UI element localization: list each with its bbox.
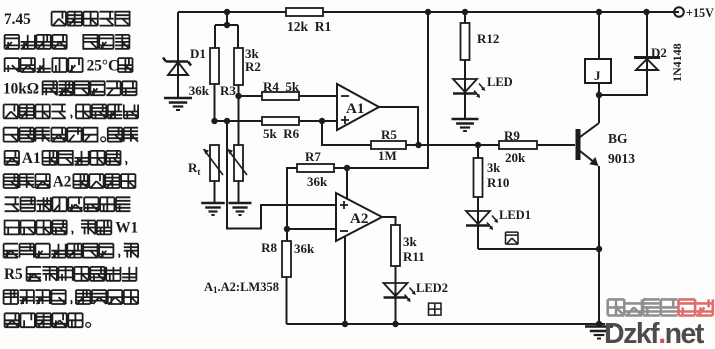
svg-text:LED: LED xyxy=(487,75,513,89)
wire node B to R4 xyxy=(239,95,263,97)
wire R9 to transistor base xyxy=(537,144,575,146)
wire rail to R12 xyxy=(464,12,466,23)
junction node A to A2 + wire xyxy=(224,118,230,124)
wire W1 to ground xyxy=(238,181,240,203)
resistor R2 3k xyxy=(234,48,243,85)
wire rail to R3/R2 tee xyxy=(226,12,228,25)
ground (under Rt) xyxy=(201,203,225,215)
wire LED1 to emitter line xyxy=(478,248,599,250)
wire R8 to ground rail xyxy=(286,277,288,324)
svg-text:10kΩ: 10kΩ xyxy=(3,81,39,98)
ground (under W1) xyxy=(229,203,252,215)
wire R11 through LED2 to rail xyxy=(395,266,397,324)
svg-text:A2: A2 xyxy=(350,211,368,227)
junction rail to R7 feed xyxy=(425,9,431,15)
svg-text:5k R6: 5k R6 xyxy=(263,126,300,141)
wire A2 V- power tap to ground rail xyxy=(344,237,346,325)
+15V supply terminal xyxy=(674,7,684,17)
wire R4 to A1 inverting input xyxy=(299,95,337,97)
svg-text:A2: A2 xyxy=(53,173,72,190)
svg-text:36k: 36k xyxy=(307,174,328,189)
junction A2 V- on ground rail xyxy=(342,321,348,327)
resistor R1 12k (in top rail) xyxy=(286,8,323,16)
potentiometer W1 xyxy=(227,145,247,181)
transistor BG 9013 xyxy=(576,123,600,166)
svg-text:LED1: LED1 xyxy=(499,208,531,222)
resistor R3 36k xyxy=(210,48,219,84)
resistor R6 5k xyxy=(262,117,299,125)
wire +15V down to R7 line (crosses output wire) xyxy=(347,12,428,168)
ground (under D1) xyxy=(164,98,192,110)
label red (hong) xyxy=(506,232,519,244)
wire R12 through LED to ground xyxy=(464,60,466,119)
junction on rail (R3/R2 branch) xyxy=(224,9,230,15)
junction A1 output / R5 xyxy=(415,142,421,148)
zener diode D1 xyxy=(163,58,191,76)
junction node A at R3/Rt xyxy=(211,118,217,124)
wire output node to R10 xyxy=(477,145,479,158)
op-amp A1 xyxy=(337,84,379,130)
junction R7 feed / A2 V+ tap xyxy=(344,165,350,171)
svg-text:W1: W1 xyxy=(115,220,138,237)
wire node A to A2 + input xyxy=(227,121,336,229)
resistor R9 20k xyxy=(499,141,537,149)
wire node B down to W1 (crosses node-A line) xyxy=(238,96,240,145)
wire R3 bottom to node A xyxy=(214,84,216,121)
svg-text:R12: R12 xyxy=(477,31,499,46)
wire +15V rail xyxy=(323,11,679,13)
wire Vref through D1 to ground xyxy=(177,12,179,98)
junction LED2 on ground rail xyxy=(392,321,398,327)
svg-text:20k: 20k xyxy=(505,150,526,165)
LED (power indicator) xyxy=(453,79,485,98)
wire ground rail xyxy=(287,323,606,325)
wire A2 output to R11 xyxy=(382,217,396,225)
svg-text:D2: D2 xyxy=(651,45,667,60)
svg-text:R8: R8 xyxy=(261,240,277,255)
resistor R8 36k xyxy=(282,241,291,277)
resistor R4 5k xyxy=(262,92,299,100)
junction output node / R10 xyxy=(475,142,481,148)
svg-text:R5: R5 xyxy=(381,127,397,142)
svg-text:Dzkf.net: Dzkf.net xyxy=(604,318,705,349)
svg-text:R5: R5 xyxy=(4,266,23,283)
wire R6 to A1 non-inverting input xyxy=(299,120,337,122)
label yellow (huang) xyxy=(429,303,442,315)
svg-text:R10: R10 xyxy=(487,175,509,190)
wire R5 to output node xyxy=(406,144,419,146)
wire rail to relay coil xyxy=(598,12,600,59)
wire node to R8 xyxy=(286,229,288,241)
svg-text:9013: 9013 xyxy=(608,151,635,166)
svg-text:R4 5k: R4 5k xyxy=(263,79,300,94)
wire A2 V+ power tap xyxy=(346,168,348,198)
svg-text:36k: 36k xyxy=(294,241,315,256)
wire R7 left end down to A2 - node xyxy=(287,168,297,229)
wire node A horizontal xyxy=(215,120,263,122)
wire relay coil bottom xyxy=(598,83,600,95)
ground (under LED) xyxy=(452,119,479,131)
junction A2 - input / R7 / R8 xyxy=(284,226,290,232)
svg-text:R11: R11 xyxy=(403,249,425,264)
wire A1 output down to node xyxy=(379,107,418,145)
svg-text:1M: 1M xyxy=(378,148,397,163)
resistor R12 xyxy=(461,23,470,60)
junction rail to relay xyxy=(596,9,602,15)
junction rail to D2 cathode xyxy=(643,9,649,15)
svg-text:BG: BG xyxy=(608,131,628,146)
wire to A2 inverting input xyxy=(287,228,336,230)
svg-text:+15V: +15V xyxy=(686,6,714,20)
resistor R5 1M xyxy=(371,141,406,149)
LED2 (yellow) xyxy=(384,283,416,302)
junction LED1 / emitter line xyxy=(596,246,602,252)
svg-text:A1: A1 xyxy=(22,150,41,167)
wire D2 cathode to rail xyxy=(646,12,648,57)
svg-text:A1: A1 xyxy=(346,101,364,117)
svg-text:25°C: 25°C xyxy=(87,57,119,74)
svg-text:36k: 36k xyxy=(189,83,210,98)
wire Rt to ground xyxy=(214,181,216,203)
svg-text:7.45: 7.45 xyxy=(4,11,31,28)
svg-text:12k R1: 12k R1 xyxy=(287,19,332,34)
wire A1 + input to R5 xyxy=(322,121,371,145)
wire A1 output node to R9 xyxy=(419,144,500,146)
op-amp A2 xyxy=(336,193,382,241)
svg-text:R9: R9 xyxy=(504,128,520,143)
resistor R7 36k xyxy=(297,164,334,172)
svg-text:R7: R7 xyxy=(305,149,321,164)
svg-text:LED2: LED2 xyxy=(416,281,448,295)
relay coil J xyxy=(585,59,611,83)
diode D2 1N4148 xyxy=(634,58,660,71)
watermark: dianzi kaifa shequ (electronics development community) xyxy=(608,299,713,315)
resistor R10 3k xyxy=(474,158,483,197)
svg-text:3k: 3k xyxy=(403,234,418,249)
junction collector / relay / D2 xyxy=(596,92,602,98)
svg-text:R2: R2 xyxy=(245,59,261,74)
svg-text:J: J xyxy=(594,68,601,83)
wire relay bottom through D2 xyxy=(599,57,647,95)
LED1 (red) xyxy=(466,211,498,230)
wire emitter to ground rail xyxy=(598,166,600,324)
wire collector to relay xyxy=(598,95,600,123)
description paragraph (Chinese) xyxy=(3,11,138,327)
thermistor Rt xyxy=(203,145,223,181)
junction node B (R2/R4/W1) xyxy=(235,93,241,99)
resistor R11 3k xyxy=(391,225,400,266)
wire Vref rail left segment xyxy=(178,11,286,13)
svg-text:1N4148: 1N4148 xyxy=(670,43,684,82)
wire R10 through LED1 xyxy=(477,197,479,249)
junction A1 + input / R5 feedback xyxy=(319,118,325,124)
junction emitter on ground rail xyxy=(596,321,602,327)
wire tee arms to R3 and R2 xyxy=(215,25,238,48)
junction rail to R12 xyxy=(462,9,468,15)
svg-text:D1: D1 xyxy=(190,46,206,61)
junction R3/R2 tee xyxy=(224,22,230,28)
wire R2 bottom to node B xyxy=(238,85,240,96)
wire to R7 right end xyxy=(334,167,347,169)
svg-text:3k: 3k xyxy=(487,161,500,175)
ground (main, under rail) xyxy=(585,327,613,339)
